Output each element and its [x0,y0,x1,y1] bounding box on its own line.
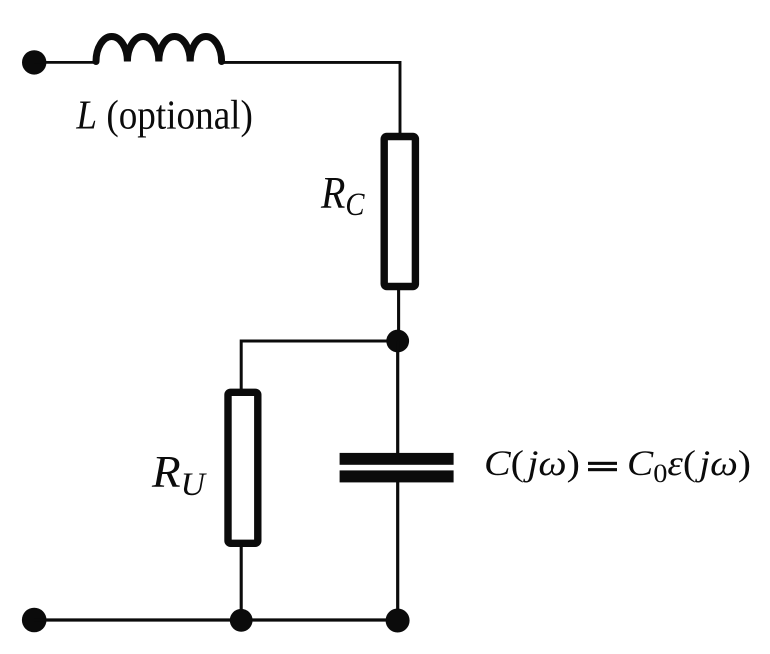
terminal dot (bottom-left) [22,608,47,633]
wire: node A left and down to R_U [241,341,398,393]
svg-text:L (optional): L (optional) [75,92,252,138]
capacitor C top plate [340,453,454,465]
svg-text:RU: RU [151,446,207,503]
node C (capacitor to bottom rail) [386,609,410,633]
node B (R_U to bottom rail) [230,609,253,632]
resistor R_C [384,137,415,287]
terminal dot (top-left input) [22,50,46,74]
node A (junction R_C / R_U / C) [386,330,409,353]
wire: node A down to capacitor [396,341,399,453]
resistor R_U [228,392,258,543]
wire: capacitor bottom to node C [396,482,399,620]
inductor L [96,36,222,61]
svg-text:RC: RC [320,167,365,223]
wire: R_U bottom to node B [240,543,243,620]
wire: top terminal to inductor [34,61,96,64]
svg-text:C( jω): C( jω) [484,443,580,483]
bottom rail wire [34,618,398,621]
wire: inductor to top-right corner, down to R_C [222,62,400,136]
wire: R_C bottom to node A [397,286,400,341]
svg-text:C0ε( jω): C0ε( jω) [627,443,751,488]
capacitor C bottom plate [340,470,454,482]
